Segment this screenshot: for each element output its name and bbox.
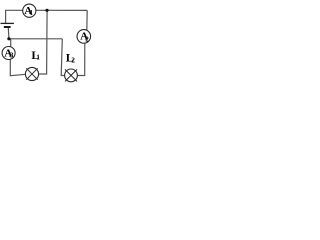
wire A3 bottom lead down, corner right to L1 [10,59,25,76]
junction dot J2 left rail [7,37,10,40]
battery short thick plate [4,26,11,28]
ammeter A1 [23,4,36,17]
wire right side down to A2 top [86,10,88,31]
wire L1 right lead to middle vertical up to top junction [39,10,48,74]
svg-text:1: 1 [30,9,34,17]
lamp L2 [65,69,78,82]
wire battery bottom down to rail junction [7,28,10,38]
wire L2 left lead and branch up to rail [61,39,64,76]
svg-text:3: 3 [10,52,14,60]
svg-text:2: 2 [71,56,75,64]
wire top from A1 to top-right corner [36,9,87,11]
ammeter A3 [2,47,15,60]
wire A2 bottom down to lamp row and left to L2 [77,43,85,76]
wire top-left from battery up and right to A1 [6,10,23,23]
wire A3 top lead from rail junction [10,39,12,47]
battery long plate [1,22,14,24]
junction dot J1 top [45,9,48,12]
wire rail horizontal [8,38,62,40]
label L1 [31,48,40,62]
ammeter A2 [77,30,91,44]
svg-text:2: 2 [85,35,89,43]
label L2 [66,50,76,64]
svg-text:1: 1 [36,54,40,62]
lamp L1 [25,67,38,80]
